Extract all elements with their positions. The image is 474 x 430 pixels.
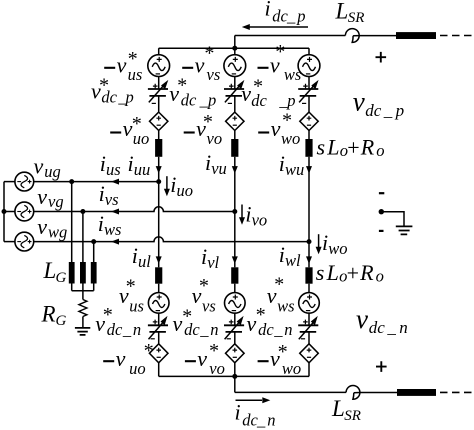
wire v upper src-cap	[234, 77, 236, 90]
node phase u mid	[156, 179, 161, 184]
ac source -v_us* upper	[148, 55, 170, 77]
svg-text:R: R	[41, 301, 56, 326]
wire v upper cap-diamond	[234, 96, 236, 112]
svg-text:*: *	[102, 304, 112, 326]
svg-text:vl: vl	[207, 253, 219, 272]
label + dc_p top right	[376, 52, 387, 63]
capacitor v_dc_p w (variable)	[298, 88, 318, 90]
wire v upper diamond-bar	[234, 131, 236, 140]
current arrowhead i_wu	[306, 166, 312, 174]
wire u-phase top stub	[158, 48, 160, 55]
svg-text:v: v	[356, 304, 368, 334]
svg-text:wg: wg	[48, 222, 67, 241]
svg-text:us: us	[129, 296, 144, 315]
label -v_uo* lower	[103, 360, 114, 362]
svg-text:*: *	[204, 42, 214, 64]
current arrow i_dc_p	[249, 26, 308, 28]
ground right	[396, 226, 413, 234]
svg-text:dc: dc	[272, 7, 288, 26]
current arrowhead i_us	[111, 179, 119, 185]
current arrowhead i_vu	[232, 166, 238, 174]
node top dc_p junction	[232, 46, 237, 51]
svg-text:v: v	[34, 154, 44, 179]
label -v_wo* lower	[258, 360, 269, 362]
label -v_uo* upper	[110, 131, 121, 133]
wire w lower bar-src	[308, 284, 310, 293]
svg-text:*: *	[202, 111, 212, 133]
wire u lower diamond to bus	[158, 363, 160, 377]
ac source v_vg	[15, 202, 34, 221]
svg-text:s: s	[317, 135, 326, 160]
wire below L_G bar 2	[82, 284, 84, 291]
svg-text:*: *	[181, 305, 191, 327]
current arrow i_vo	[241, 205, 243, 218]
wire R_G to ground	[82, 317, 84, 328]
svg-text:*: *	[98, 75, 108, 97]
svg-text:v: v	[271, 116, 281, 141]
wire w upper src-cap	[308, 77, 310, 90]
svg-text:_: _	[386, 318, 396, 337]
svg-text:p: p	[125, 88, 134, 107]
wire v lower cap-diamond	[234, 332, 236, 344]
capacitor v_dc_p v (variable)	[224, 88, 244, 90]
svg-text:v: v	[37, 214, 47, 239]
wire u lower cap-diamond	[158, 332, 160, 344]
impedance sLo+Ro upper w (black bar)	[305, 139, 312, 157]
svg-text:vu: vu	[211, 159, 227, 178]
node bottom dc_n junction	[232, 374, 237, 379]
dependent source -v_uo* lower	[149, 344, 168, 363]
svg-text:n: n	[133, 320, 141, 339]
svg-text:*: *	[143, 340, 153, 362]
svg-text:L: L	[43, 258, 57, 283]
wire u upper src-cap	[158, 77, 160, 90]
current arrowhead i_ul	[156, 256, 162, 264]
impedance sLo+Ro lower u (black bar)	[155, 267, 162, 283]
wire bottom riser at phase V	[234, 376, 236, 392]
svg-text:_: _	[199, 320, 209, 339]
svg-text:L: L	[331, 396, 345, 421]
wire below L_G bar 3	[93, 284, 95, 291]
dependent source -v_vo* lower	[226, 344, 245, 363]
svg-text:wo: wo	[281, 129, 300, 148]
current arrow i_dc_n	[236, 399, 263, 401]
svg-text:G: G	[56, 313, 67, 329]
svg-text:i: i	[100, 151, 106, 176]
wire bottom dc bus right of L_SR	[354, 392, 397, 394]
wire v lower bar-src	[234, 284, 236, 293]
label - lower (v_dc_n negative)	[379, 230, 384, 232]
svg-text:ws: ws	[104, 220, 121, 239]
label -v_vo* upper	[184, 131, 195, 133]
svg-text:SR: SR	[348, 10, 365, 26]
label -v_wo* upper	[258, 131, 269, 133]
svg-text:vo: vo	[252, 211, 268, 230]
svg-text:*: *	[127, 48, 137, 70]
svg-text:wl: wl	[285, 251, 301, 270]
wire v upper bar to node	[234, 157, 236, 212]
ac source v_wg	[15, 232, 34, 251]
capacitor v_dc_p u (variable)	[148, 88, 168, 90]
node o reference dot	[379, 209, 384, 214]
svg-text:uu: uu	[134, 160, 151, 179]
dependent source -v_wo* upper	[300, 112, 318, 130]
svg-text:v: v	[241, 81, 251, 106]
svg-text:*: *	[273, 274, 283, 296]
label -v_vo* lower	[185, 360, 196, 362]
dependent source -v_wo* lower	[300, 344, 319, 363]
wire left stub 1	[4, 181, 15, 183]
capacitor v_dc_n v (variable)	[224, 324, 244, 326]
svg-text:+: +	[347, 135, 359, 160]
wire L_G tap v	[82, 212, 84, 263]
impedance sLo+Ro lower v (black bar)	[231, 267, 238, 283]
ac source v_us* lower	[148, 293, 169, 314]
svg-text:G: G	[56, 270, 67, 286]
ac source v_ws* lower	[299, 293, 320, 314]
wire L_G tap w	[93, 242, 95, 262]
svg-text:ug: ug	[44, 162, 61, 181]
impedance block bottom (black bar)	[397, 389, 436, 396]
inductor L_G bar 2	[80, 262, 86, 284]
svg-text:i: i	[279, 242, 285, 267]
svg-text:*: *	[131, 113, 141, 135]
node phase w mid	[307, 239, 312, 244]
impedance sLo+Ro upper u (black bar)	[155, 139, 162, 157]
svg-text:i: i	[279, 151, 285, 176]
wire u upper bar to node	[158, 157, 160, 182]
wire to right ground	[381, 212, 404, 226]
node grid-v to L_G tap	[80, 209, 85, 214]
capacitor v_dc_n w (variable)	[298, 324, 318, 326]
svg-text:*: *	[281, 109, 291, 131]
wire u node to lower bar	[158, 182, 160, 268]
ac source v_ug	[15, 172, 34, 191]
wire bottom dashed continuation	[440, 391, 474, 393]
svg-text:wo: wo	[328, 239, 347, 258]
label -v_vs*	[182, 67, 193, 69]
svg-text:n: n	[284, 320, 292, 339]
svg-text:v: v	[197, 346, 207, 371]
wire w lower diamond to bus	[308, 363, 310, 377]
svg-text:i: i	[265, 0, 271, 20]
current arrowhead i_ws	[111, 239, 119, 245]
inductor L_G bar 1	[69, 262, 75, 284]
wire L_G tap u	[71, 182, 73, 262]
svg-text:vs: vs	[207, 65, 221, 84]
wire u upper cap-diamond	[158, 96, 160, 112]
wire w lower cap-diamond	[308, 332, 310, 344]
svg-text:us: us	[106, 160, 121, 179]
svg-text:*: *	[274, 41, 284, 63]
svg-text:dc: dc	[369, 318, 386, 337]
node left bus middle	[2, 209, 7, 214]
wire v lower diamond to bus	[234, 363, 236, 377]
ground left	[75, 328, 90, 335]
current arrowhead i_vl	[232, 256, 238, 264]
svg-text:+: +	[347, 261, 359, 286]
svg-text:*: *	[255, 304, 265, 326]
svg-text:ws: ws	[284, 65, 301, 84]
node grid-w to L_G tap	[91, 239, 96, 244]
wire left source bus	[3, 182, 5, 242]
wire grid line u	[34, 181, 159, 183]
svg-text:i: i	[245, 202, 251, 227]
svg-text:ul: ul	[138, 252, 151, 271]
svg-text:o: o	[376, 267, 384, 286]
current arrowhead i_vs	[111, 209, 119, 215]
svg-text:L: L	[335, 0, 349, 24]
svg-text:R: R	[359, 260, 374, 285]
impedance block top (black bar)	[396, 32, 436, 39]
svg-text:_: _	[273, 320, 283, 339]
wire top dc bus left of L_SR	[235, 35, 346, 37]
wire u lower src-cap	[158, 313, 160, 325]
svg-text:L: L	[326, 260, 339, 285]
svg-text:vs: vs	[105, 190, 119, 209]
svg-text:SR: SR	[344, 408, 361, 424]
svg-text:dc: dc	[365, 101, 382, 120]
label - upper (v_dc_p negative)	[379, 192, 384, 194]
svg-text:R: R	[360, 135, 375, 160]
svg-text:o: o	[376, 141, 384, 160]
inductor L_SR top	[345, 29, 359, 43]
ac source -v_ws* upper	[298, 55, 320, 77]
wire v lower src-cap	[234, 313, 236, 325]
current arrowhead i_wl	[306, 256, 312, 264]
wire w-phase top stub	[308, 48, 310, 55]
svg-text:*: *	[198, 275, 208, 297]
svg-text:n: n	[210, 320, 218, 339]
wire top riser at phase V	[234, 36, 236, 49]
svg-text:L: L	[326, 135, 339, 160]
svg-text:*: *	[252, 76, 262, 98]
svg-text:vg: vg	[48, 192, 64, 211]
wire below L_G bar 1	[71, 284, 73, 291]
wire top dashed continuation	[440, 35, 474, 37]
svg-text:*: *	[277, 341, 287, 363]
svg-text:ws: ws	[277, 296, 294, 315]
wire w upper diamond-bar	[308, 131, 310, 140]
svg-text:n: n	[267, 411, 275, 430]
inductor L_SR bottom	[346, 386, 360, 400]
wire to R_G	[82, 291, 84, 300]
label -v_us*	[104, 67, 115, 69]
svg-text:_: _	[286, 7, 296, 26]
wire bottom connector bus	[159, 375, 309, 377]
svg-text:i: i	[132, 243, 138, 268]
node phase v mid	[232, 209, 237, 214]
impedance sLo+Ro upper v (black bar)	[231, 139, 238, 157]
svg-text:i: i	[235, 400, 241, 425]
inductor L_G bar 3	[91, 262, 97, 284]
svg-text:i: i	[99, 181, 105, 206]
label -v_ws*	[258, 67, 269, 69]
current arrowhead i_uu	[156, 166, 162, 174]
svg-text:s: s	[316, 260, 325, 285]
current arrow i_wo	[318, 234, 320, 247]
svg-text:n: n	[399, 318, 408, 337]
wire grid line v	[34, 207, 235, 212]
wire bottom dc bus left of L_SR	[235, 391, 346, 393]
svg-text:v: v	[37, 184, 47, 209]
svg-text:uo: uo	[177, 181, 194, 200]
svg-text:vs: vs	[202, 296, 216, 315]
node grid-u to L_G tap	[69, 179, 74, 184]
svg-text:v: v	[353, 87, 365, 117]
svg-text:p: p	[296, 7, 305, 26]
dependent source -v_uo* upper	[150, 112, 168, 130]
wire left stub 3	[4, 241, 15, 243]
label + dc_n bottom right	[376, 361, 387, 372]
svg-text:v: v	[116, 346, 126, 371]
wire v node to lower bar	[234, 212, 236, 268]
svg-text:_: _	[383, 101, 393, 120]
svg-text:v: v	[117, 52, 127, 77]
ac source -v_vs* upper	[224, 55, 246, 77]
wire w upper cap-diamond	[308, 96, 310, 112]
svg-text:p: p	[286, 91, 295, 110]
current arrow i_uo	[166, 176, 168, 189]
svg-text:*: *	[208, 340, 218, 362]
ac source v_vs* lower	[225, 293, 246, 314]
svg-text:*: *	[176, 75, 186, 97]
svg-text:p: p	[395, 101, 405, 120]
impedance sLo+Ro lower w (black bar)	[305, 267, 312, 283]
capacitor v_dc_n u (variable)	[148, 324, 168, 326]
svg-text:_: _	[256, 411, 266, 430]
wire grid line w	[34, 237, 309, 242]
svg-text:i: i	[98, 211, 104, 236]
wire L_G join	[72, 290, 94, 292]
wire w lower src-cap	[308, 313, 310, 325]
svg-text:p: p	[207, 91, 216, 110]
wire u upper diamond-bar	[158, 131, 160, 140]
wire u lower bar-src	[158, 284, 160, 293]
svg-text:*: *	[125, 276, 135, 298]
svg-text:i: i	[170, 172, 176, 197]
svg-text:wu: wu	[285, 160, 304, 179]
wire w node to lower bar	[308, 242, 310, 268]
dependent source -v_vo* upper	[226, 112, 244, 130]
wire w upper bar to node	[308, 157, 310, 242]
wire top dc bus right of L_SR	[353, 35, 396, 37]
svg-text:_: _	[122, 320, 132, 339]
wire top connector bus	[159, 47, 309, 49]
wire left stub 2	[4, 211, 15, 213]
wire v-phase top stub	[234, 48, 236, 55]
resistor R_G	[79, 300, 87, 317]
